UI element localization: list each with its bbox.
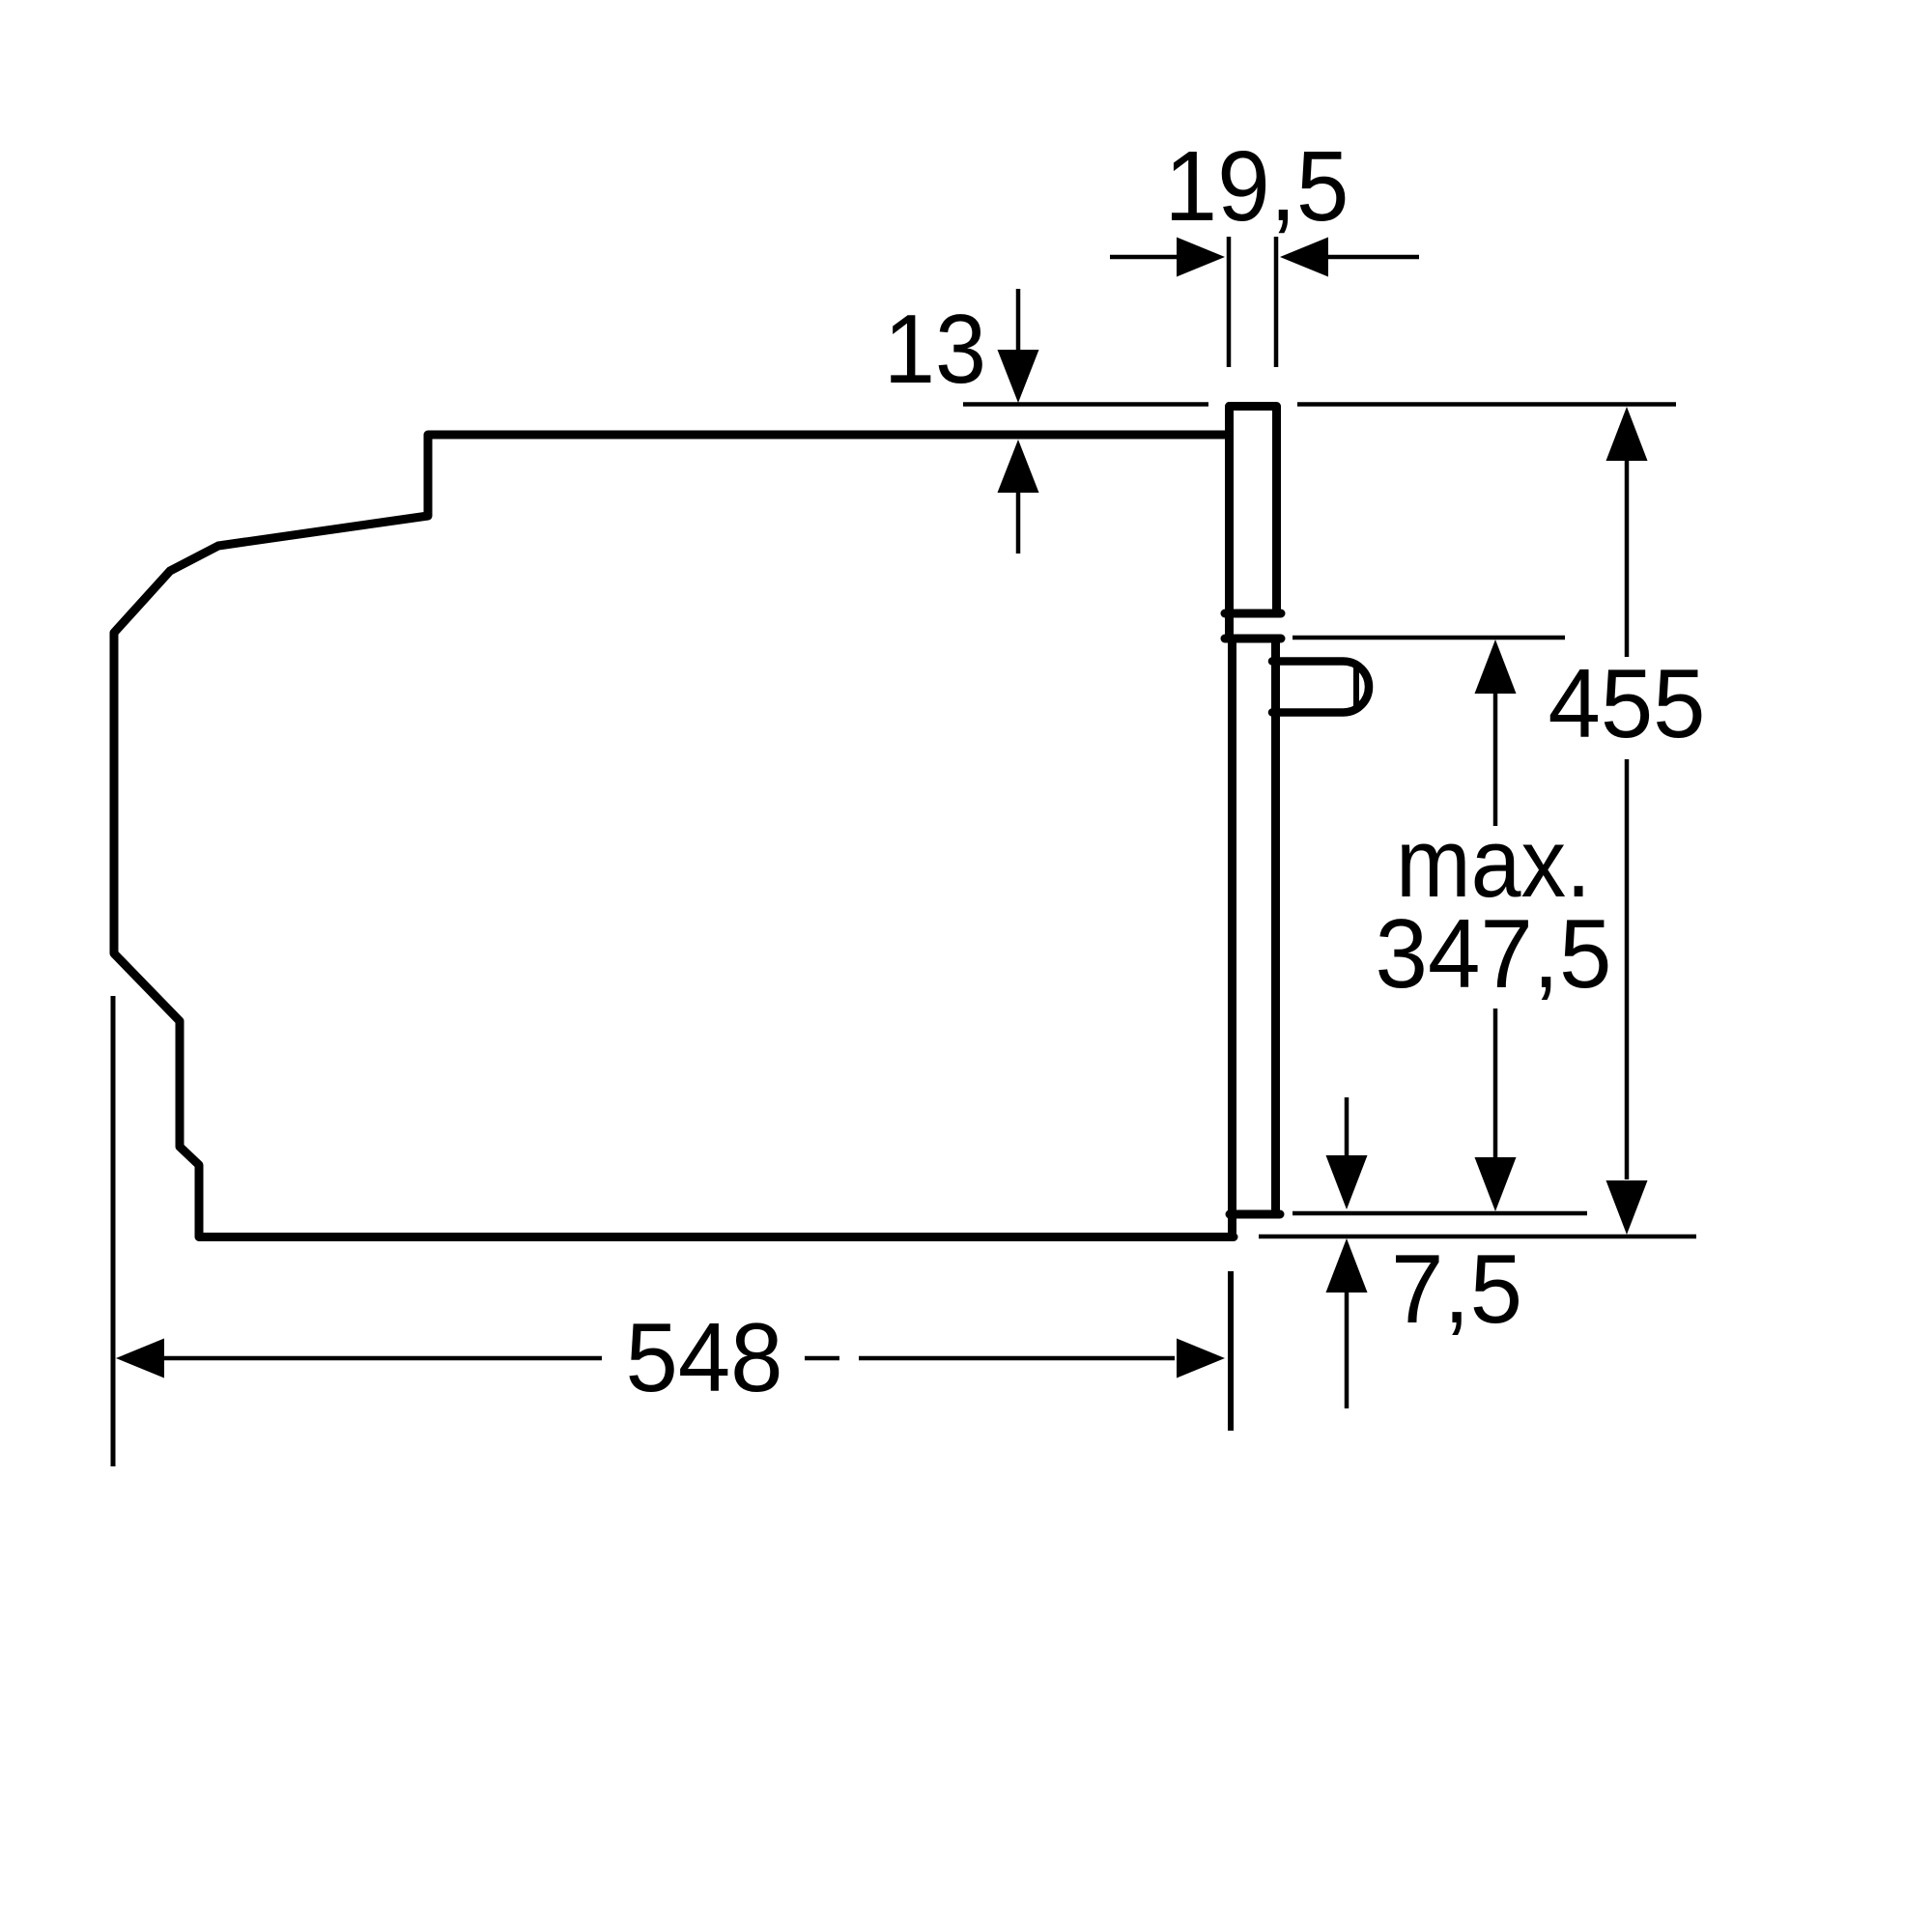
body outline (oven side profile) (114, 435, 1234, 1237)
step line between panel and door (1225, 635, 1281, 643)
control panel rectangle (1225, 407, 1281, 639)
dimension 13 up arrow (998, 440, 1039, 554)
dimension 7,5 lower arrow (1326, 1238, 1368, 1408)
max 347,5 top extension line (1293, 636, 1565, 640)
dimension 19,5 right arrow (1280, 238, 1419, 277)
svg-text:13: 13 (884, 296, 986, 404)
dimension max 347,5 line and arrows (1475, 639, 1517, 1211)
dimension 13 down arrow (998, 289, 1039, 403)
548 right extension line (1228, 1271, 1234, 1431)
svg-text:347,5: 347,5 (1376, 900, 1612, 1009)
knob highlight line (1353, 667, 1359, 707)
dimension 548 left arrow (116, 1339, 602, 1378)
svg-text:19,5: 19,5 (1165, 130, 1350, 241)
svg-text:7,5: 7,5 (1391, 1236, 1522, 1344)
body bottom extension line (1259, 1235, 1696, 1239)
svg-text:548: 548 (626, 1304, 783, 1412)
dimension 548 right arrow (805, 1339, 1225, 1378)
19,5 left extension line (1227, 237, 1232, 367)
dimension 19,5 left arrow (1110, 238, 1225, 277)
dimension 7,5 upper arrow (1326, 1097, 1368, 1209)
door bottom extension line (1293, 1211, 1587, 1216)
548 left extension line (111, 996, 116, 1466)
svg-text:455: 455 (1548, 650, 1706, 758)
oven door front (1230, 639, 1280, 1235)
dimension 455 line and arrows (1606, 407, 1648, 1235)
19,5 right extension line (1274, 237, 1279, 367)
niche top extension line (13 upper reference) (963, 402, 1676, 407)
door handle knob (1272, 662, 1369, 713)
